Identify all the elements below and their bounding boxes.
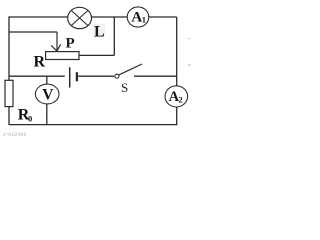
switch pivot circle [115, 74, 119, 78]
svg-text:S: S [121, 80, 128, 95]
resistor R (rheostat body) [46, 52, 79, 60]
ammeter A2 circle [165, 86, 188, 107]
svg-text:R: R [34, 54, 46, 71]
svg-text:P: P [66, 36, 75, 52]
watermark right marks [188, 38, 191, 40]
wire wiper vertical [56, 32, 58, 51]
wire wiper branch horizontal [9, 31, 57, 33]
voltmeter V circle [35, 84, 59, 104]
ammeter A1 circle [127, 7, 149, 27]
wire left vertical [8, 16, 10, 125]
svg-text:2ᵃA62966: 2ᵃA62966 [3, 132, 27, 138]
wire bottom horizontal [9, 124, 177, 126]
svg-text:1: 1 [142, 15, 146, 25]
lamp L circle [68, 7, 92, 28]
wire battery to switch [78, 75, 114, 77]
wiper arrowhead [51, 44, 60, 51]
svg-text:0: 0 [28, 114, 32, 124]
lamp L cross [71, 10, 88, 25]
label L background [93, 24, 106, 38]
wire voltmeter bottom stub [46, 104, 48, 125]
svg-text:2: 2 [178, 95, 182, 105]
wire top horizontal [9, 16, 177, 18]
battery short plate [76, 72, 78, 81]
resistor R0 [5, 80, 13, 106]
wire switch contact to right [134, 75, 177, 77]
switch blade [119, 64, 142, 75]
wire right vertical [176, 17, 178, 125]
svg-text:A: A [131, 10, 142, 26]
wire junction vertical to top [113, 17, 115, 55]
battery long plate [69, 67, 71, 87]
svg-text:V: V [42, 87, 54, 104]
wire voltmeter top stub [46, 76, 48, 84]
wire middle left (node M to battery) [9, 75, 65, 77]
svg-text:L: L [94, 23, 105, 40]
wire rheostat right terminal [79, 54, 114, 56]
